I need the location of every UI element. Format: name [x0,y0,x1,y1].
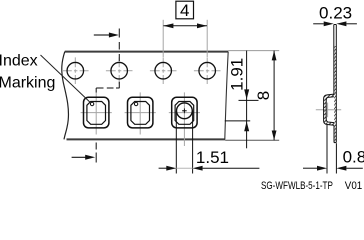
svg-text:1.91: 1.91 [228,58,247,91]
svg-text:1.51: 1.51 [196,148,229,167]
svg-text:Index: Index [0,52,38,69]
svg-text:V01: V01 [345,179,363,192]
svg-text:4: 4 [180,1,189,20]
svg-text:0.8: 0.8 [343,147,364,166]
svg-text:SG-WFWLB-5-1-TP: SG-WFWLB-5-1-TP [261,180,333,193]
svg-text:8: 8 [254,91,273,100]
svg-text:0.23: 0.23 [319,3,352,22]
svg-text:Marking: Marking [0,75,55,92]
